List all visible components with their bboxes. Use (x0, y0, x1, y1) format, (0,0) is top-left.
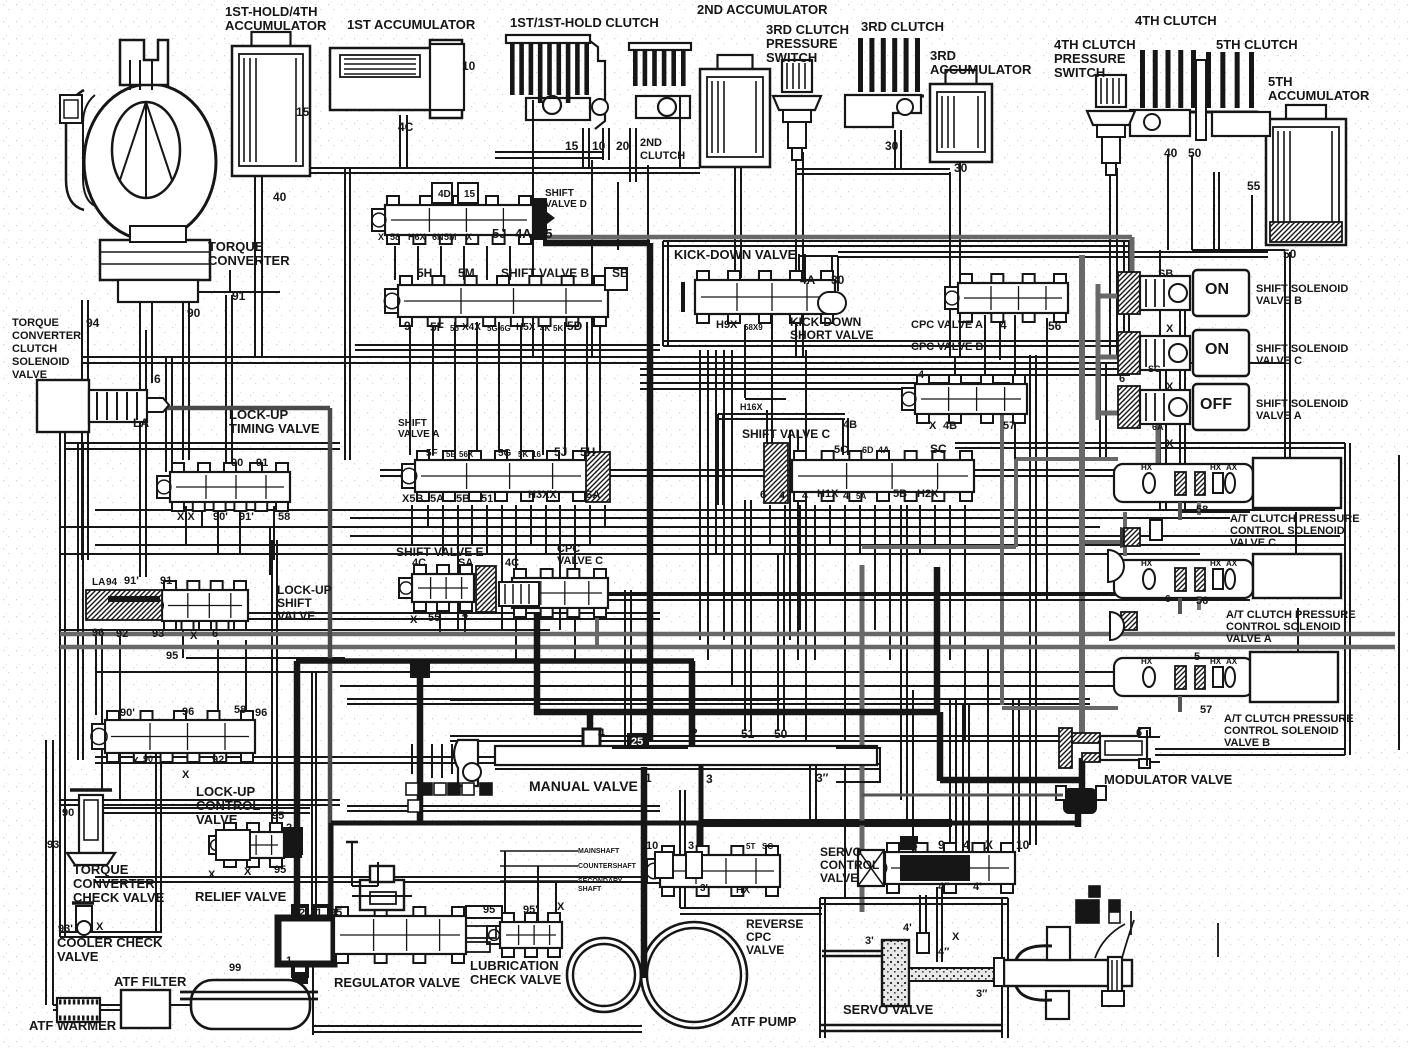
svg-text:58X9: 58X9 (744, 323, 763, 332)
svg-text:PRESSURE: PRESSURE (1054, 51, 1126, 66)
svg-text:3RD: 3RD (930, 48, 956, 63)
svg-text:SB: SB (612, 266, 629, 280)
svg-text:95: 95 (166, 650, 178, 662)
svg-text:X: X (244, 866, 252, 878)
svg-text:55: 55 (1247, 179, 1261, 193)
svg-text:5J: 5J (492, 226, 506, 241)
svg-text:58: 58 (390, 232, 400, 242)
svg-text:3': 3' (865, 935, 874, 947)
svg-text:4A: 4A (878, 445, 890, 455)
svg-text:ON: ON (1205, 341, 1229, 358)
svg-text:TORQUE: TORQUE (12, 317, 59, 329)
svg-text:VALVE A: VALVE A (1256, 410, 1302, 422)
svg-text:4K: 4K (540, 324, 550, 333)
svg-text:95: 95 (330, 907, 342, 919)
svg-text:VALVE D: VALVE D (545, 199, 587, 210)
svg-text:3: 3 (706, 772, 713, 786)
svg-text:3': 3' (700, 883, 708, 894)
svg-text:10: 10 (462, 59, 476, 73)
svg-text:2ND: 2ND (640, 137, 662, 149)
svg-text:6: 6 (154, 372, 161, 386)
svg-text:X: X (466, 232, 472, 242)
svg-text:SHIFT SOLENOID: SHIFT SOLENOID (1256, 283, 1348, 295)
svg-text:H5X: H5X (516, 322, 536, 333)
svg-text:REVERSE: REVERSE (746, 917, 803, 931)
svg-text:COOLER CHECK: COOLER CHECK (57, 935, 163, 950)
svg-text:4″: 4″ (938, 881, 950, 893)
svg-text:SC: SC (930, 442, 947, 456)
svg-text:3″: 3″ (976, 988, 988, 1000)
svg-text:X: X (1166, 323, 1174, 335)
svg-text:50: 50 (774, 727, 788, 741)
svg-text:1: 1 (1078, 766, 1084, 778)
svg-text:REGULATOR VALVE: REGULATOR VALVE (334, 975, 460, 990)
svg-text:2: 2 (286, 822, 292, 834)
svg-text:VALVE B: VALVE B (1256, 295, 1302, 307)
svg-text:4A: 4A (800, 273, 816, 287)
svg-text:5K: 5K (518, 450, 528, 459)
svg-text:94: 94 (86, 316, 100, 330)
svg-text:16: 16 (532, 450, 541, 459)
svg-text:30: 30 (831, 273, 845, 287)
svg-text:4: 4 (598, 726, 605, 740)
svg-text:X: X (182, 769, 190, 781)
svg-text:SC: SC (1148, 364, 1161, 374)
svg-text:RELIEF VALVE: RELIEF VALVE (195, 889, 287, 904)
svg-text:40: 40 (273, 190, 287, 204)
svg-text:X: X (929, 420, 937, 432)
svg-text:HX: HX (1210, 657, 1222, 666)
svg-text:58: 58 (234, 704, 246, 716)
svg-text:4: 4 (843, 490, 850, 502)
svg-text:6: 6 (1136, 727, 1142, 739)
svg-text:VALVE C: VALVE C (557, 555, 603, 567)
svg-text:6A: 6A (1152, 422, 1164, 432)
svg-text:TIMING VALVE: TIMING VALVE (229, 421, 320, 436)
svg-text:95: 95 (483, 904, 495, 916)
svg-text:5TH CLUTCH: 5TH CLUTCH (1216, 37, 1298, 52)
svg-text:4A: 4A (515, 226, 532, 241)
svg-text:3RD CLUTCH: 3RD CLUTCH (766, 22, 849, 37)
svg-text:90': 90' (120, 707, 135, 719)
svg-text:5M: 5M (444, 232, 457, 242)
svg-text:4B: 4B (943, 420, 957, 432)
svg-text:KICK-DOWN: KICK-DOWN (790, 315, 861, 329)
svg-text:CONTROL: CONTROL (820, 858, 879, 872)
svg-text:X4X: X4X (462, 322, 481, 333)
svg-text:ACCUMULATOR: ACCUMULATOR (225, 18, 327, 33)
svg-text:VALVE: VALVE (277, 609, 315, 623)
svg-text:5E: 5E (446, 450, 456, 459)
svg-text:4': 4' (903, 922, 912, 934)
svg-text:4: 4 (1000, 318, 1007, 332)
svg-text:4TH CLUTCH: 4TH CLUTCH (1054, 37, 1136, 52)
svg-text:96: 96 (255, 707, 267, 719)
svg-text:4C: 4C (412, 557, 426, 569)
svg-text:1ST/1ST-HOLD CLUTCH: 1ST/1ST-HOLD CLUTCH (510, 15, 659, 30)
svg-text:91': 91' (239, 511, 254, 523)
svg-text:VALVE C: VALVE C (1256, 355, 1302, 367)
svg-text:VALVE A: VALVE A (398, 429, 439, 440)
svg-text:AX: AX (1226, 559, 1238, 568)
svg-text:X: X (132, 756, 139, 767)
svg-text:VALVE A: VALVE A (1226, 633, 1272, 645)
svg-text:55: 55 (428, 612, 440, 624)
svg-text:95': 95' (523, 904, 538, 916)
svg-text:56X: 56X (459, 450, 474, 459)
svg-text:58: 58 (278, 511, 290, 523)
svg-text:LUBRICATION: LUBRICATION (470, 958, 559, 973)
svg-text:58: 58 (1196, 504, 1208, 516)
svg-text:SC: SC (762, 842, 773, 851)
svg-text:ATF PUMP: ATF PUMP (731, 1014, 797, 1029)
svg-text:92: 92 (116, 628, 128, 640)
svg-text:H16X: H16X (740, 402, 763, 412)
svg-text:5A: 5A (430, 493, 444, 505)
svg-text:MAINSHAFT: MAINSHAFT (578, 848, 620, 855)
svg-text:KICK-DOWN VALVE: KICK-DOWN VALVE (674, 247, 797, 262)
svg-text:X: X (557, 901, 565, 913)
svg-text:5K: 5K (553, 324, 563, 333)
svg-text:1ST ACCUMULATOR: 1ST ACCUMULATOR (347, 17, 476, 32)
svg-text:CLUTCH: CLUTCH (640, 150, 685, 162)
svg-text:1: 1 (645, 771, 652, 785)
svg-text:ATF WARMER: ATF WARMER (29, 1018, 117, 1033)
svg-text:CONVERTER: CONVERTER (12, 330, 81, 342)
svg-text:93: 93 (47, 839, 59, 851)
svg-text:5T: 5T (746, 842, 755, 851)
svg-text:5: 5 (1194, 651, 1200, 663)
svg-text:A/T CLUTCH PRESSURE: A/T CLUTCH PRESSURE (1226, 609, 1356, 621)
svg-text:91': 91' (124, 575, 139, 587)
svg-text:93: 93 (152, 628, 164, 640)
svg-text:VALVE C: VALVE C (1230, 537, 1276, 549)
svg-text:56: 56 (1048, 319, 1062, 333)
svg-text:SHIFT: SHIFT (277, 596, 312, 610)
svg-text:30: 30 (885, 139, 899, 153)
svg-text:HX: HX (1141, 559, 1153, 568)
svg-text:96: 96 (92, 627, 104, 639)
svg-text:92: 92 (212, 754, 224, 766)
svg-text:SHIFT SOLENOID: SHIFT SOLENOID (1256, 398, 1348, 410)
svg-text:SHIFT: SHIFT (545, 188, 574, 199)
svg-text:96: 96 (182, 706, 194, 718)
svg-text:VALVE B: VALVE B (1224, 737, 1270, 749)
svg-text:CONVERTER: CONVERTER (208, 253, 290, 268)
svg-text:COUNTERSHAFT: COUNTERSHAFT (578, 863, 637, 870)
svg-text:5F: 5F (426, 448, 438, 459)
svg-text:90: 90 (187, 306, 201, 320)
svg-text:5A: 5A (856, 492, 866, 501)
svg-text:3RD CLUTCH: 3RD CLUTCH (861, 19, 944, 34)
svg-text:51: 51 (481, 493, 493, 505)
svg-text:93': 93' (58, 923, 73, 935)
svg-text:4C: 4C (505, 557, 519, 569)
svg-text:15: 15 (464, 189, 476, 200)
svg-text:SHAFT: SHAFT (578, 886, 602, 893)
svg-text:15: 15 (296, 105, 310, 119)
svg-text:6G: 6G (500, 324, 511, 333)
svg-text:1ST-HOLD/4TH: 1ST-HOLD/4TH (225, 4, 317, 19)
svg-text:CLUTCH: CLUTCH (12, 343, 57, 355)
svg-text:5B: 5B (893, 488, 907, 500)
svg-text:HX: HX (1141, 463, 1153, 472)
svg-text:VALVE: VALVE (196, 812, 238, 827)
svg-text:6: 6 (760, 489, 766, 501)
svg-text:6D: 6D (862, 445, 874, 455)
svg-text:H1X: H1X (817, 488, 839, 500)
svg-text:3: 3 (688, 840, 694, 852)
svg-text:99: 99 (229, 962, 241, 974)
svg-text:5TH: 5TH (1268, 74, 1293, 89)
svg-text:56: 56 (1196, 595, 1208, 607)
svg-text:50: 50 (1283, 247, 1297, 261)
svg-text:A/T CLUTCH PRESSURE: A/T CLUTCH PRESSURE (1230, 513, 1360, 525)
svg-text:SWITCH: SWITCH (1054, 65, 1105, 80)
svg-text:CPC: CPC (746, 930, 772, 944)
svg-text:ACCUMULATOR: ACCUMULATOR (930, 62, 1032, 77)
svg-text:H2X: H2X (917, 488, 939, 500)
svg-text:1: 1 (286, 955, 292, 967)
svg-text:91: 91 (160, 575, 172, 587)
svg-text:10: 10 (1016, 838, 1030, 852)
svg-text:91: 91 (232, 289, 246, 303)
svg-text:56: 56 (450, 324, 459, 333)
svg-text:SWITCH: SWITCH (766, 50, 817, 65)
svg-text:92: 92 (293, 907, 305, 919)
svg-text:15: 15 (565, 139, 579, 153)
svg-text:X: X (96, 921, 104, 933)
svg-text:SB: SB (1158, 268, 1173, 280)
svg-text:20: 20 (616, 139, 630, 153)
svg-text:VALVE: VALVE (12, 369, 47, 381)
svg-text:LA: LA (133, 416, 149, 430)
svg-text:SECONDARY: SECONDARY (578, 878, 623, 885)
svg-text:40: 40 (1164, 146, 1178, 160)
svg-text:SA: SA (458, 557, 473, 569)
svg-text:4: 4 (802, 490, 809, 502)
svg-text:95: 95 (272, 810, 284, 822)
svg-text:X5B: X5B (402, 493, 423, 505)
svg-text:4D: 4D (438, 189, 451, 200)
svg-text:PRESSURE: PRESSURE (766, 36, 838, 51)
svg-text:AX: AX (1226, 463, 1238, 472)
svg-text:CHECK VALVE: CHECK VALVE (470, 972, 562, 987)
svg-text:30: 30 (954, 161, 968, 175)
svg-text:H6X: H6X (408, 232, 426, 242)
svg-text:10: 10 (646, 840, 658, 852)
svg-text:9: 9 (404, 319, 411, 333)
svg-text:X X: X X (177, 511, 195, 523)
svg-text:CONTROL SOLENOID: CONTROL SOLENOID (1226, 621, 1341, 633)
svg-text:6N: 6N (432, 232, 444, 242)
svg-text:VALVE: VALVE (746, 943, 784, 957)
svg-text:A/T CLUTCH PRESSURE: A/T CLUTCH PRESSURE (1224, 713, 1354, 725)
svg-text:CONTROL SOLENOID: CONTROL SOLENOID (1224, 725, 1339, 737)
svg-text:90: 90 (231, 457, 243, 469)
svg-text:X: X (190, 630, 198, 642)
svg-text:4″: 4″ (938, 946, 950, 958)
svg-text:TORQUE: TORQUE (73, 862, 129, 877)
svg-text:2ND ACCUMULATOR: 2ND ACCUMULATOR (697, 2, 828, 17)
svg-text:SHORT VALVE: SHORT VALVE (790, 328, 874, 342)
svg-text:SHIFT VALVE B: SHIFT VALVE B (501, 266, 590, 280)
svg-text:5G: 5G (487, 324, 498, 333)
svg-text:X: X (1166, 381, 1174, 393)
svg-text:OFF: OFF (1200, 396, 1232, 413)
svg-text:LA: LA (92, 577, 105, 588)
svg-text:5M: 5M (458, 266, 475, 280)
svg-text:4': 4' (973, 881, 982, 893)
svg-text:SA: SA (585, 489, 600, 501)
svg-text:CONTROL: CONTROL (196, 798, 260, 813)
svg-text:HX: HX (1210, 559, 1222, 568)
svg-text:SHIFT VALVE C: SHIFT VALVE C (742, 427, 831, 441)
svg-text:6: 6 (212, 628, 218, 640)
svg-text:VALVE: VALVE (57, 949, 99, 964)
svg-text:5F: 5F (430, 320, 444, 334)
svg-text:25: 25 (631, 736, 643, 748)
svg-text:CONVERTER: CONVERTER (73, 876, 155, 891)
svg-text:ATF FILTER: ATF FILTER (114, 974, 187, 989)
svg-text:5B: 5B (456, 493, 470, 505)
svg-text:X: X (1166, 438, 1174, 450)
svg-text:SERVO VALVE: SERVO VALVE (843, 1002, 934, 1017)
svg-text:9: 9 (938, 838, 945, 852)
svg-text:5J: 5J (554, 445, 567, 459)
svg-text:HX: HX (1210, 463, 1222, 472)
svg-text:LOCK-UP: LOCK-UP (196, 784, 256, 799)
svg-text:6: 6 (1119, 373, 1125, 385)
svg-text:X: X (410, 614, 418, 626)
svg-text:CPC VALVE B: CPC VALVE B (911, 341, 983, 353)
svg-text:4: 4 (462, 609, 469, 621)
svg-text:51: 51 (741, 727, 755, 741)
svg-text:CPC: CPC (557, 543, 580, 555)
svg-text:X: X (208, 869, 216, 881)
svg-text:CHECK VALVE: CHECK VALVE (73, 890, 165, 905)
svg-text:4: 4 (918, 369, 925, 381)
svg-text:H3XX: H3XX (528, 489, 557, 501)
svg-text:ON: ON (1205, 281, 1229, 298)
svg-text:CONTROL SOLENOID: CONTROL SOLENOID (1230, 525, 1345, 537)
svg-text:SHIFT: SHIFT (398, 418, 427, 429)
svg-text:4: 4 (779, 490, 786, 502)
svg-text:91: 91 (256, 457, 268, 469)
svg-text:X: X (952, 931, 960, 943)
svg-text:X: X (378, 232, 384, 242)
svg-text:ACCUMULATOR: ACCUMULATOR (1268, 88, 1370, 103)
svg-text:95: 95 (274, 864, 286, 876)
svg-text:4C: 4C (398, 120, 414, 134)
svg-text:25: 25 (538, 226, 552, 241)
svg-text:4B: 4B (843, 419, 857, 431)
svg-text:SHIFT SOLENOID: SHIFT SOLENOID (1256, 343, 1348, 355)
svg-text:57: 57 (1200, 704, 1212, 716)
svg-text:5H: 5H (417, 266, 432, 280)
svg-text:90': 90' (213, 511, 228, 523)
svg-text:LOCK-UP: LOCK-UP (229, 407, 289, 422)
svg-text:57: 57 (1003, 420, 1015, 432)
svg-text:1: 1 (316, 907, 322, 919)
svg-text:X: X (985, 838, 993, 852)
svg-text:HX: HX (1141, 657, 1153, 666)
svg-text:VALVE: VALVE (820, 871, 858, 885)
svg-text:2: 2 (691, 726, 698, 740)
svg-text:SOLENOID: SOLENOID (12, 356, 70, 368)
svg-text:AX: AX (1226, 657, 1238, 666)
svg-text:10: 10 (592, 139, 606, 153)
svg-text:6: 6 (1165, 594, 1171, 605)
svg-text:TORQUE: TORQUE (208, 239, 264, 254)
svg-text:5D: 5D (567, 319, 583, 333)
svg-text:MANUAL VALVE: MANUAL VALVE (529, 778, 638, 794)
svg-text:3″: 3″ (816, 771, 829, 785)
svg-text:4: 4 (963, 838, 970, 852)
svg-text:94: 94 (106, 577, 118, 588)
svg-text:MODULATOR VALVE: MODULATOR VALVE (1104, 772, 1233, 787)
svg-text:5C: 5C (834, 444, 848, 456)
svg-text:50: 50 (1188, 146, 1202, 160)
svg-text:90: 90 (62, 807, 74, 819)
svg-text:5G: 5G (498, 448, 512, 459)
svg-text:4TH CLUTCH: 4TH CLUTCH (1135, 13, 1217, 28)
svg-text:CPC VALVE A: CPC VALVE A (911, 319, 983, 331)
svg-text:SERVO: SERVO (820, 845, 862, 859)
svg-text:HX: HX (736, 885, 750, 896)
svg-text:90: 90 (143, 754, 153, 764)
svg-text:5H: 5H (580, 445, 595, 459)
svg-text:3: 3 (911, 838, 918, 852)
svg-text:LOCK-UP: LOCK-UP (277, 583, 332, 597)
svg-text:H9X: H9X (716, 319, 738, 331)
